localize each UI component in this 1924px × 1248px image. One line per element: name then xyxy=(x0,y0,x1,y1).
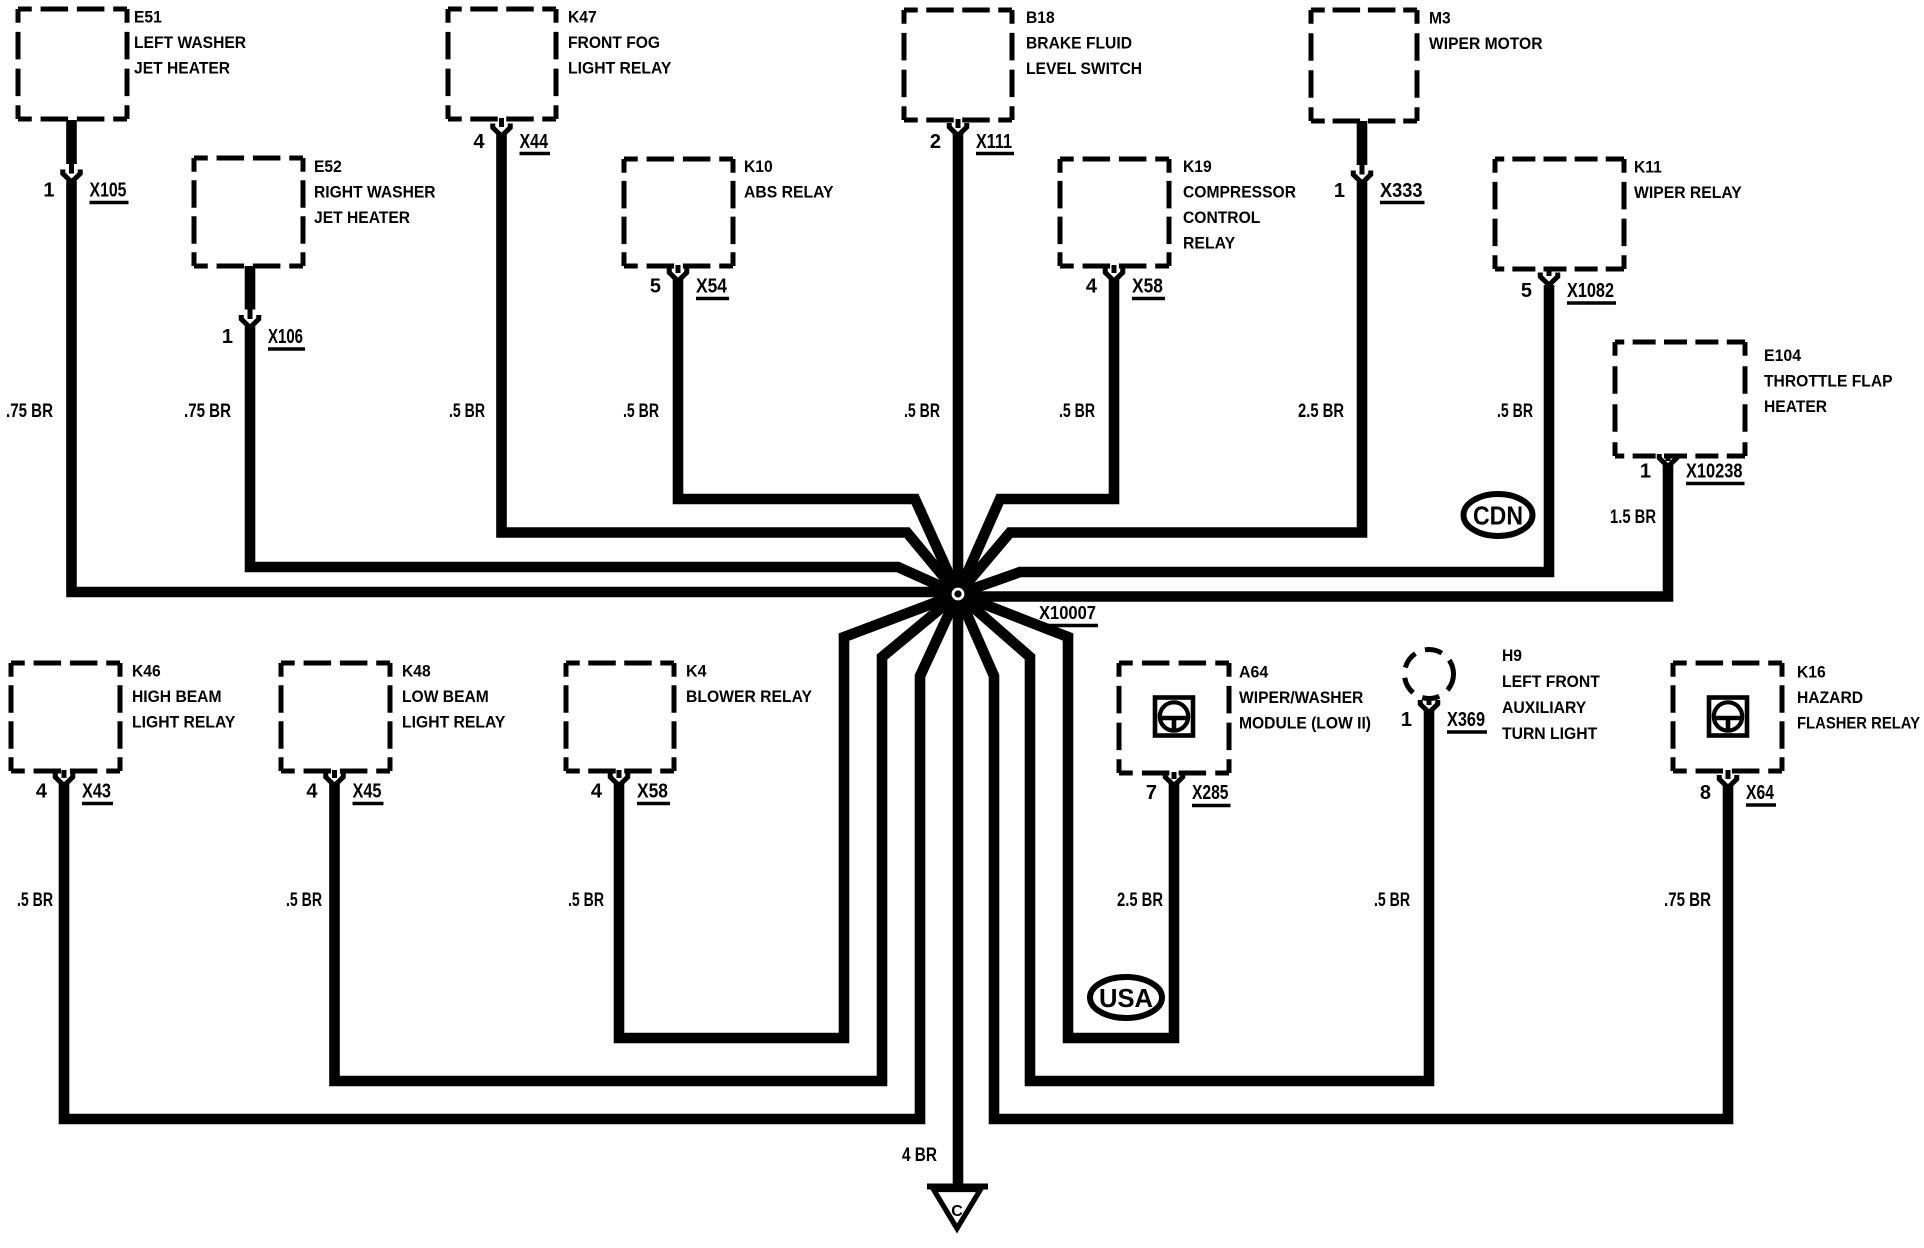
svg-text:BRAKE FLUID: BRAKE FLUID xyxy=(1026,34,1132,53)
connector X285 pin 7 (A64) xyxy=(1146,773,1231,806)
svg-text:.5 BR: .5 BR xyxy=(449,401,485,422)
svg-text:LIGHT RELAY: LIGHT RELAY xyxy=(402,713,506,732)
svg-text:M3: M3 xyxy=(1429,9,1451,28)
connector X58 pin 4 (K19) xyxy=(1086,269,1165,299)
wire K4 pin4 to ground node X10007 (.5 BR) xyxy=(619,594,958,1038)
svg-text:.5 BR: .5 BR xyxy=(17,890,53,911)
connector X44 pin 4 (K47) xyxy=(473,124,550,154)
svg-text:.5 BR: .5 BR xyxy=(286,890,322,911)
svg-text:HIGH BEAM: HIGH BEAM xyxy=(132,687,222,706)
blower relay K4 xyxy=(566,662,813,772)
wire gauge labels, top section xyxy=(6,401,1656,528)
connector X369 pin 1 (H9) xyxy=(1401,700,1487,732)
svg-text:4 BR: 4 BR xyxy=(902,1145,937,1166)
svg-text:.5 BR: .5 BR xyxy=(1374,890,1410,911)
svg-text:.5 BR: .5 BR xyxy=(1059,401,1095,422)
connector X105 pin 1 (E51) xyxy=(43,170,128,203)
svg-text:X111: X111 xyxy=(976,131,1012,153)
svg-text:FLASHER RELAY: FLASHER RELAY xyxy=(1797,714,1921,733)
svg-text:HAZARD: HAZARD xyxy=(1797,688,1863,707)
USA market oval xyxy=(1090,977,1162,1018)
svg-text:K4: K4 xyxy=(686,662,707,681)
svg-text:HEATER: HEATER xyxy=(1764,397,1827,416)
wiper motor M3 xyxy=(1311,9,1543,122)
wire E51 pin1 to ground node X10007 (.75 BR) xyxy=(72,120,959,592)
svg-text:X369: X369 xyxy=(1447,709,1485,731)
svg-text:TURN LIGHT: TURN LIGHT xyxy=(1502,724,1598,743)
svg-text:K16: K16 xyxy=(1797,663,1826,682)
svg-text:ABS RELAY: ABS RELAY xyxy=(744,183,834,202)
svg-text:X1082: X1082 xyxy=(1567,280,1614,302)
ABS relay K10 xyxy=(624,157,834,266)
wire H9 pin1 to ground node X10007 (.5 BR) xyxy=(958,594,1429,1081)
wire E104 pin1 to ground node X10007 (1.5 BR) xyxy=(958,465,1668,597)
svg-text:X64: X64 xyxy=(1746,782,1775,804)
svg-text:1.5 BR: 1.5 BR xyxy=(1610,507,1656,528)
ground splice node X10007 xyxy=(947,583,1099,626)
brake fluid level switch B18 xyxy=(904,8,1142,120)
ground point C triangle xyxy=(927,1187,988,1229)
wire K16 pin8 to ground node X10007 (.75 BR) xyxy=(958,594,1728,1119)
svg-text:WIPER MOTOR: WIPER MOTOR xyxy=(1429,34,1543,53)
svg-text:8: 8 xyxy=(1700,782,1711,804)
left washer jet heater E51 xyxy=(18,8,246,120)
svg-text:K48: K48 xyxy=(402,662,431,681)
wire K48 pin4 to ground node X10007 (.5 BR) xyxy=(335,594,959,1081)
svg-text:2: 2 xyxy=(930,131,941,153)
svg-text:X333: X333 xyxy=(1380,180,1423,202)
svg-text:K19: K19 xyxy=(1183,157,1212,176)
connector X333 pin 1 (M3) xyxy=(1334,171,1425,203)
connector X106 pin 1 (E52) xyxy=(222,315,305,349)
svg-text:K46: K46 xyxy=(132,662,161,681)
svg-text:WIPER/WASHER: WIPER/WASHER xyxy=(1239,688,1363,707)
right washer jet heater E52 xyxy=(194,157,436,266)
svg-text:CONTROL: CONTROL xyxy=(1183,208,1260,227)
svg-text:LEFT WASHER: LEFT WASHER xyxy=(134,33,246,52)
svg-text:X43: X43 xyxy=(82,781,111,803)
connector X45 pin 4 (K48) xyxy=(306,773,383,804)
svg-text:E104: E104 xyxy=(1764,346,1802,365)
svg-text:K10: K10 xyxy=(744,157,773,176)
svg-text:.75 BR: .75 BR xyxy=(1664,890,1711,911)
svg-text:X10007: X10007 xyxy=(1039,603,1096,623)
svg-text:1: 1 xyxy=(43,180,54,202)
svg-text:4: 4 xyxy=(306,781,318,803)
svg-text:X285: X285 xyxy=(1192,782,1229,804)
low beam light relay K48 xyxy=(281,662,506,772)
svg-text:LEVEL SWITCH: LEVEL SWITCH xyxy=(1026,59,1142,78)
wire B18 pin2 through node X10007 down to ground point C (.5 BR / 4 BR) xyxy=(953,134,964,1189)
svg-text:E52: E52 xyxy=(314,157,342,176)
svg-text:1: 1 xyxy=(1640,461,1651,483)
svg-text:USA: USA xyxy=(1099,983,1153,1013)
svg-text:C: C xyxy=(951,1203,963,1220)
svg-text:BLOWER RELAY: BLOWER RELAY xyxy=(686,687,813,706)
front fog light relay K47 xyxy=(448,8,672,120)
svg-text:X105: X105 xyxy=(90,180,127,202)
wire K47 pin4 to ground node X10007 (.5 BR) xyxy=(502,134,959,594)
svg-text:THROTTLE FLAP: THROTTLE FLAP xyxy=(1764,372,1893,391)
left front auxiliary turn light H9 (dashed circle) xyxy=(1405,646,1601,743)
connector X64 pin 8 (K16) xyxy=(1700,775,1776,805)
svg-text:CDN: CDN xyxy=(1473,501,1523,531)
svg-text:X58: X58 xyxy=(1132,276,1163,298)
svg-text:.75 BR: .75 BR xyxy=(6,401,53,422)
svg-text:JET HEATER: JET HEATER xyxy=(134,59,230,78)
svg-text:LOW BEAM: LOW BEAM xyxy=(402,687,489,706)
wire K19 pin4 to ground node X10007 (.5 BR) xyxy=(958,279,1114,594)
svg-text:1: 1 xyxy=(1401,709,1412,731)
svg-text:MODULE (LOW II): MODULE (LOW II) xyxy=(1239,714,1371,733)
svg-text:2.5 BR: 2.5 BR xyxy=(1298,401,1344,422)
svg-text:.75 BR: .75 BR xyxy=(184,401,231,422)
svg-text:.5 BR: .5 BR xyxy=(623,401,659,422)
connector X111 pin 2 (B18) xyxy=(930,123,1014,154)
svg-text:X45: X45 xyxy=(353,781,382,803)
connector X58 pin 4 (K4) xyxy=(591,773,670,804)
svg-text:7: 7 xyxy=(1146,782,1157,804)
connector X10238 pin 1 (E104) xyxy=(1640,454,1745,484)
wire K10 pin5 to ground node X10007 (.5 BR) xyxy=(678,279,958,594)
svg-text:X54: X54 xyxy=(696,276,728,298)
wire A64 pin7 to ground node X10007 (2.5 BR) xyxy=(958,594,1174,1038)
svg-text:JET HEATER: JET HEATER xyxy=(314,208,410,227)
svg-text:4: 4 xyxy=(1086,276,1098,298)
svg-text:X106: X106 xyxy=(268,326,303,348)
svg-text:1: 1 xyxy=(1334,180,1345,202)
wire K11 pin5 to ground node X10007 (.5 BR) xyxy=(958,285,1549,594)
svg-text:E51: E51 xyxy=(134,8,162,27)
wiper relay K11 xyxy=(1495,158,1742,270)
svg-text:AUXILIARY: AUXILIARY xyxy=(1502,698,1587,717)
wire M3 pin1 to ground node X10007 (2.5 BR) xyxy=(958,121,1362,594)
svg-text:X44: X44 xyxy=(520,131,549,153)
throttle flap heater E104 xyxy=(1615,342,1893,456)
svg-text:4: 4 xyxy=(473,131,485,153)
connector X43 pin 4 (K46) xyxy=(36,773,113,804)
svg-text:K11: K11 xyxy=(1634,158,1662,177)
wire E52 pin1 to ground node X10007 (.75 BR) xyxy=(250,266,958,594)
svg-text:.5 BR: .5 BR xyxy=(568,890,604,911)
connector X54 pin 5 (K10) xyxy=(650,269,729,299)
svg-text:H9: H9 xyxy=(1502,646,1522,665)
svg-text:5: 5 xyxy=(650,276,661,298)
svg-text:.5 BR: .5 BR xyxy=(904,401,940,422)
svg-text:5: 5 xyxy=(1521,280,1532,302)
svg-text:LIGHT RELAY: LIGHT RELAY xyxy=(568,59,672,78)
wiper/washer module A64 xyxy=(1119,663,1371,774)
svg-text:LEFT FRONT: LEFT FRONT xyxy=(1502,672,1600,691)
svg-text:X58: X58 xyxy=(637,781,668,803)
CDN market oval xyxy=(1464,494,1533,536)
svg-text:1: 1 xyxy=(222,326,233,348)
svg-text:A64: A64 xyxy=(1239,663,1269,682)
svg-text:2.5 BR: 2.5 BR xyxy=(1117,890,1163,911)
svg-text:COMPRESSOR: COMPRESSOR xyxy=(1183,183,1296,202)
svg-text:WIPER RELAY: WIPER RELAY xyxy=(1634,183,1742,202)
svg-text:4: 4 xyxy=(591,781,603,803)
high beam light relay K46 xyxy=(11,662,236,772)
wire gauge labels, bottom section xyxy=(17,890,1711,1166)
svg-text:RIGHT WASHER: RIGHT WASHER xyxy=(314,183,436,202)
compressor control relay K19 xyxy=(1060,157,1296,266)
svg-text:LIGHT RELAY: LIGHT RELAY xyxy=(132,713,236,732)
svg-text:.5 BR: .5 BR xyxy=(1497,401,1533,422)
connector X1082 pin 5 (K11) xyxy=(1521,273,1616,304)
svg-text:B18: B18 xyxy=(1026,8,1055,27)
svg-text:RELAY: RELAY xyxy=(1183,234,1236,253)
svg-text:K47: K47 xyxy=(568,8,597,27)
svg-text:4: 4 xyxy=(36,781,48,803)
wire K46 pin4 to ground node X10007 (.5 BR) xyxy=(64,594,958,1119)
svg-text:FRONT FOG: FRONT FOG xyxy=(568,33,660,52)
svg-text:X10238: X10238 xyxy=(1686,461,1743,483)
hazard flasher relay K16 xyxy=(1673,663,1921,772)
